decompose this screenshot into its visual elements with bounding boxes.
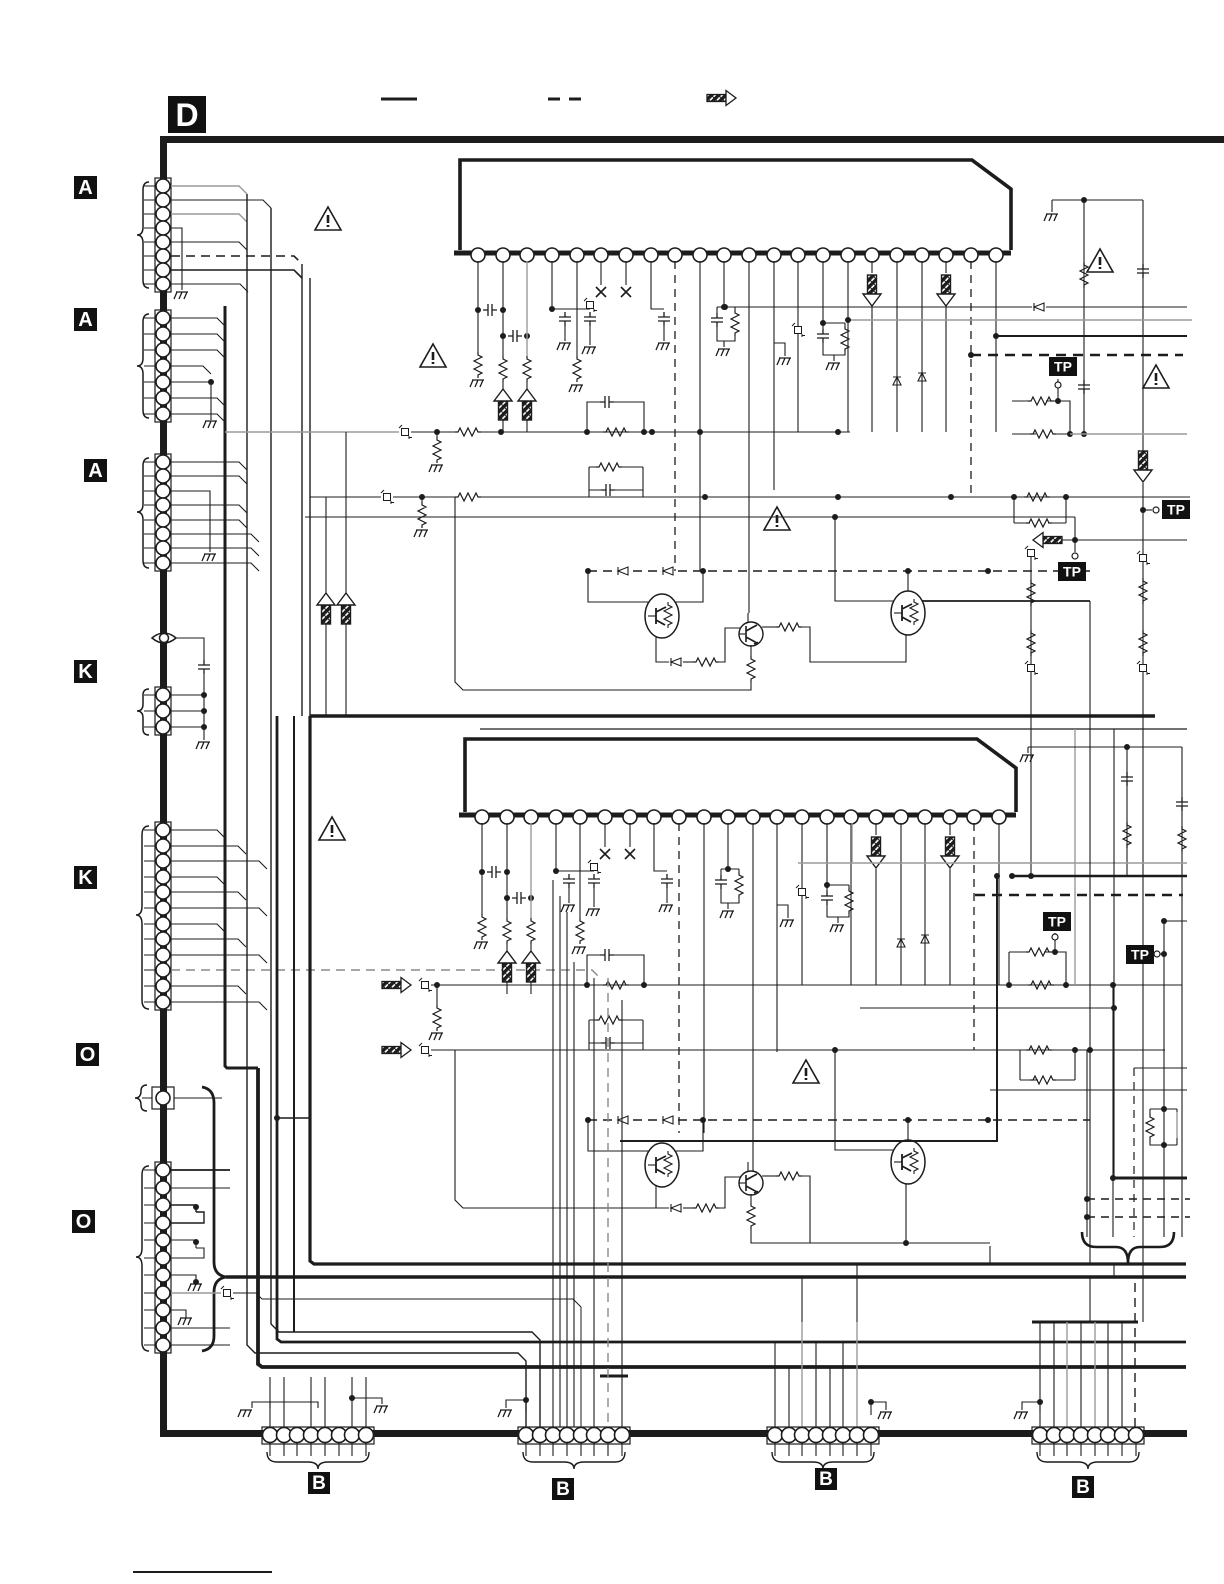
wire U1 pin12 drop <box>748 261 750 613</box>
ground U2-G8 <box>780 920 794 927</box>
wire A1-4 to ground <box>171 228 182 290</box>
transistor Q2 base wire <box>835 517 894 601</box>
IC U1 pins <box>471 248 1003 262</box>
resistor R10 <box>455 428 481 436</box>
wire U2 pin13 drop <box>776 823 778 1052</box>
gray vertical x1075 <box>1074 729 1076 985</box>
ground U1-G6 <box>716 349 730 356</box>
arrow U2 down2 <box>949 823 951 835</box>
resistor U1-R6 <box>841 326 849 352</box>
ground U2-G6 <box>720 911 734 918</box>
capacitor U1-C1 <box>483 304 497 316</box>
svg-text:A: A <box>88 460 102 482</box>
wire U2 pin15 loop2 <box>827 823 849 923</box>
ground A2 <box>203 421 217 428</box>
wires K1 to junction <box>171 695 204 727</box>
capacitor C-K <box>198 660 210 674</box>
border bottom <box>160 1430 1187 1437</box>
wire U1 pin21 drop (dashed) <box>970 261 972 497</box>
ground A3 <box>202 554 216 561</box>
wire Q3 emitter left <box>455 497 751 690</box>
svg-text:B: B <box>1076 1477 1090 1498</box>
brace B2 <box>523 1452 625 1469</box>
wire A2-1 <box>171 318 225 326</box>
wire U1 pin3 drop (gray) <box>526 261 528 356</box>
wire y497 lead <box>310 496 381 498</box>
label B4 <box>1072 1476 1094 1498</box>
ground U1-G5 <box>656 343 670 350</box>
arrow U2 up1 <box>498 951 516 982</box>
legend signal-flow arrow <box>707 91 736 106</box>
resistor U1-R4 <box>573 356 581 382</box>
wire y571 dashed bus <box>588 570 1090 572</box>
warning triangle (far right) <box>1143 365 1169 388</box>
wire O2-8 gray with bead <box>171 1292 221 1294</box>
CN-K1 stubs <box>144 695 156 727</box>
loop E vertical resistors <box>1150 1109 1177 1145</box>
resistor R13 <box>421 497 423 502</box>
ground U2-G1 <box>474 942 488 949</box>
transistor Q1 <box>645 594 679 638</box>
B1 feed wires <box>270 1377 366 1428</box>
ground U1-G8 <box>777 358 791 365</box>
wire y747 top of lower column <box>1028 746 1182 748</box>
wire O2-6 <box>171 1248 204 1258</box>
resistor R20 <box>436 985 438 1005</box>
connector CN-K1 pins <box>156 688 170 734</box>
test point TP5 <box>1126 945 1154 964</box>
resistor R25 right of Q6 <box>762 1175 776 1177</box>
wire U2 pin19 drop <box>924 823 926 985</box>
vertical x1143 <box>1142 200 1144 451</box>
label O (second) <box>72 1210 95 1233</box>
RC loop on y985 (C21/R26) <box>587 955 644 985</box>
resistor U2-R6 <box>845 888 853 914</box>
big group brace O <box>202 1087 226 1351</box>
connector B3 pins <box>768 1428 879 1443</box>
no-connect U1 pin7 <box>625 261 627 285</box>
wire U1 pin10 drop <box>699 261 701 571</box>
svg-text:O: O <box>76 1211 92 1233</box>
CN-O1 stub and wire <box>142 1097 222 1099</box>
brace B4 <box>1037 1452 1139 1469</box>
ground G10 <box>429 465 443 472</box>
IC U2 pin row line <box>459 813 1016 818</box>
right resistor chain x1143 <box>1137 551 1150 565</box>
connector CN-O1 body <box>152 1087 174 1109</box>
transistor Q5 <box>907 1120 909 1141</box>
vertical x1164 <box>1163 921 1165 1145</box>
ground U1-G4 <box>569 385 583 392</box>
no-connect U2 pin7 <box>629 823 631 847</box>
wire U2 pin5 drop <box>579 823 581 918</box>
vertical x1031 lower <box>1030 700 1032 876</box>
ground U1-G3 <box>582 347 596 354</box>
transistor Q4 <box>645 1143 679 1187</box>
resistor U1-R2 <box>499 356 507 382</box>
arrow right B+ feed 1 <box>382 978 411 993</box>
connector CN-A1 body <box>155 178 171 292</box>
wire A3-3 to ground <box>171 491 210 552</box>
wire U2 pin21 drop (dashed) <box>973 823 975 1050</box>
ground U2-G5 <box>659 905 673 912</box>
diode D30 <box>1034 303 1044 311</box>
wire y517 <box>305 516 1075 518</box>
ground top-right <box>1051 200 1053 212</box>
bus vertical v246 <box>247 194 526 1427</box>
RC loop low (R40/R41) <box>1020 1050 1075 1080</box>
connector B1 lower stubs <box>270 1443 366 1456</box>
wire U1 pin9 drop (dashed) <box>674 261 676 571</box>
vertical x1182 <box>1181 747 1183 1237</box>
wire U1 pin2 drop <box>502 261 504 356</box>
ground U2-G2 <box>561 905 575 912</box>
connector CN-A2 body <box>155 310 171 422</box>
lamp/eye symbol <box>152 633 176 643</box>
wire y497 cont <box>481 496 1190 498</box>
connector CN-O1 pin <box>156 1091 170 1105</box>
bead FB3 <box>419 978 432 992</box>
transistor Q5 base wire <box>835 1050 894 1150</box>
no-connect U1 pin6 <box>600 261 602 285</box>
B2 ground left <box>506 1400 526 1412</box>
capacitor U2-C4 (polar) <box>588 860 601 874</box>
frame: page key box D <box>168 96 206 133</box>
wire A3-2 <box>171 476 247 484</box>
label A (third) <box>84 459 107 482</box>
verticals bundle to B2 <box>553 880 622 1427</box>
IC U1 pin row line <box>454 251 1011 256</box>
bead FB4 <box>419 1043 432 1057</box>
capacitor U1-C6 <box>711 313 723 327</box>
wire U1 pin11 loop <box>723 261 725 307</box>
wire Q2 right y601 <box>922 600 1090 602</box>
transistor Q1 emitter chain <box>656 637 669 662</box>
wire y1008 <box>860 1007 1114 1009</box>
wire y876 thick <box>1012 875 1187 878</box>
arrow down x1143 <box>1134 451 1152 482</box>
footer rule <box>133 1571 272 1573</box>
resistor U2-R4 <box>576 918 584 944</box>
connector CN-A3 body <box>155 454 171 571</box>
wire O2-3 junction <box>171 1205 196 1212</box>
label B3 <box>815 1468 837 1490</box>
diode U2-D2 <box>921 935 929 943</box>
no-connect U2 pin6 <box>604 823 606 847</box>
wire A1-6 (dashed) <box>171 256 302 264</box>
IC U2 outline <box>465 739 1016 812</box>
transistor Q1 collector wire <box>674 571 703 602</box>
wire U2 pin12 drop <box>752 823 754 1175</box>
wire y1169 thick <box>1113 1177 1187 1180</box>
wire A3-5 <box>171 520 247 528</box>
wire U2 pin14 drop + bead <box>801 823 803 985</box>
wire y1120 dashed bus (lower) <box>588 1119 1090 1121</box>
wire y921 <box>1164 920 1187 922</box>
warning triangle (center) <box>764 507 790 530</box>
wire A2-3 <box>171 350 225 358</box>
capacitor U2-C1 <box>487 866 501 878</box>
left resistor chain x1031 <box>1030 553 1032 700</box>
wire O2-7 to ground <box>171 1275 196 1282</box>
connector CN-K2 pins <box>156 823 170 1009</box>
ground U1-G2 <box>557 343 571 350</box>
resistor U1-R3 <box>523 356 531 382</box>
capacitor U1-C2 <box>508 330 522 342</box>
wire y1054 <box>431 1049 1165 1051</box>
resistor R12 <box>455 493 481 501</box>
wire U2 pin16 drop <box>850 823 852 985</box>
RC loop on y432 (C11/R16) <box>587 402 644 432</box>
B1 ground right <box>352 1398 382 1404</box>
warning triangle (mid IC1) <box>420 344 446 367</box>
wire y985 <box>431 984 1182 986</box>
connector CN-O2 body <box>155 1162 171 1353</box>
wires K2 rows <box>171 830 267 1010</box>
resistor U2-R1 <box>478 914 486 940</box>
transistor Q3 emitter resistor <box>750 645 752 656</box>
resistor U2-R5 <box>735 872 743 898</box>
brace CN-O2 <box>136 1166 149 1351</box>
wire left feed lower <box>455 1050 656 1208</box>
RC loop TP1 (R31/R32) <box>1012 401 1070 434</box>
wire U2 pin8 jog <box>654 823 667 871</box>
wire U2 pin1 drop <box>481 823 483 914</box>
wire y863 gray <box>798 862 1187 864</box>
svg-text:K: K <box>78 867 93 889</box>
wire U1 pin5 drop <box>576 261 578 356</box>
diode D21 <box>663 1116 673 1124</box>
wire U1 pin18 drop <box>896 261 898 432</box>
warning triangle (left lower) <box>319 817 345 840</box>
brace CN-A3 <box>137 458 149 568</box>
svg-text:A: A <box>78 309 92 331</box>
connector B4 pins <box>1033 1428 1144 1443</box>
wire U2 pin10 drop <box>703 823 705 1133</box>
capacitor U2-C3 <box>563 874 575 888</box>
capacitor U2-C6 <box>715 875 727 889</box>
CN-A1 pin stubs <box>144 186 156 284</box>
CN-A3 pin stubs <box>144 462 156 563</box>
bus vertical v226 <box>225 306 258 1068</box>
capacitor C30 <box>1078 380 1090 394</box>
wire A1-2 <box>171 200 271 208</box>
wire U2 pin11 loop <box>727 823 729 869</box>
warning triangle (center lower) <box>793 1060 819 1083</box>
diode U1-D2 <box>918 373 926 381</box>
brace CN-A1 <box>137 182 149 288</box>
ground U1-G7 <box>826 363 840 370</box>
svg-text:B: B <box>312 1473 326 1494</box>
wire A1-8 <box>171 284 248 292</box>
diode D11 <box>663 567 673 575</box>
arrow left feed <box>1033 533 1062 548</box>
ground U2-G4 <box>572 947 586 954</box>
gray vertical to B2 <box>580 1307 582 1427</box>
diode U1-D1 <box>893 377 901 385</box>
ground U2-G7 <box>830 925 844 932</box>
dashed vertical B4 <box>1134 1283 1136 1444</box>
bus vertical v294 <box>293 716 295 1332</box>
capacitor U1-C3 <box>559 312 571 326</box>
svg-text:K: K <box>78 661 93 683</box>
bus vertical v277 thick <box>277 716 1186 1342</box>
arrow U1 up2 <box>518 389 536 420</box>
connector CN-O2 pins <box>156 1163 170 1352</box>
brace B3 <box>772 1452 874 1469</box>
capacitor U1-C4 (polar) <box>584 298 597 312</box>
ground B4 <box>1022 1402 1040 1412</box>
transistor Q5 emitter <box>905 1183 907 1243</box>
CN-K2 stubs <box>144 830 156 1002</box>
wire U1 pin22 drop <box>995 261 997 432</box>
connector B4 lower stubs <box>1040 1443 1136 1456</box>
arrow U1 down1 <box>871 261 873 273</box>
connector B2 pins <box>519 1428 630 1443</box>
connector B1 body <box>262 1427 374 1444</box>
vertical x1084 <box>1083 200 1085 434</box>
bus thick horizontal y1277 <box>226 1275 1186 1279</box>
wire U2 pin18 drop <box>900 823 902 985</box>
transistor Q1 base wire <box>588 571 650 602</box>
wire U1 pin13 drop <box>773 261 775 490</box>
connector CN-A1 pins <box>156 179 170 291</box>
verticals to brace <box>1086 1050 1088 1237</box>
brace CN-K2 <box>136 826 149 1009</box>
brace CN-O1 <box>135 1085 147 1111</box>
wire y497 <box>393 496 455 498</box>
vertical x1127 <box>1126 747 1128 876</box>
transistor Q4 collector wire <box>674 1120 703 1151</box>
wires of up arrows <box>326 432 346 716</box>
wire lamp to cap <box>176 638 204 660</box>
wire U1 pin4 jog <box>552 261 590 309</box>
wire U2 pin3 drop (gray) <box>530 823 532 918</box>
wire O2-11 <box>171 1344 230 1346</box>
brace B1 <box>267 1452 369 1469</box>
wire U1 pin8 jog <box>651 261 664 309</box>
connector CN-K2 body <box>155 822 171 1010</box>
label O (first) <box>76 1043 99 1066</box>
wire A2-6 <box>171 398 225 406</box>
wire y336 <box>996 335 1187 337</box>
vertical x1143 lower <box>1142 700 1144 1322</box>
wire O2-9 to ground <box>171 1310 186 1318</box>
arrow U2 down1 <box>875 823 877 835</box>
wire top-right y200 <box>1052 199 1143 201</box>
wire K2-10 dashed <box>171 970 600 978</box>
wire y895 dashed <box>975 894 1183 896</box>
capacitor C31 <box>1137 264 1149 278</box>
connector B2 lower stubs <box>526 1443 622 1456</box>
arrow up pair left <box>317 593 335 624</box>
B3 feed wires <box>775 1342 843 1428</box>
wire A2-5 junction <box>171 382 211 420</box>
diode D10 <box>618 567 628 575</box>
ground B3 <box>871 1402 886 1415</box>
wire A3-4 <box>171 505 247 513</box>
wire cap down <box>203 674 205 740</box>
bus vertical v258 thick <box>258 1068 1186 1367</box>
brace CN-K1 <box>137 689 149 735</box>
svg-text:D: D <box>175 97 198 133</box>
dashed vertical to B2 <box>607 978 609 1427</box>
wire A1-1 (gray) <box>171 186 247 194</box>
bead FB2 <box>381 490 394 504</box>
wire y1144 feed <box>620 876 997 1141</box>
resistor R30 <box>1080 262 1088 288</box>
wire A1-7 <box>171 270 302 278</box>
ground O2-7 <box>188 1284 202 1291</box>
diode U2-D1 <box>897 939 905 947</box>
svg-text:B: B <box>819 1469 833 1490</box>
wire U1 pin15 loop2 <box>823 261 845 361</box>
ground U2-G3 <box>586 909 600 916</box>
junction v277-v310 link <box>277 1117 310 1119</box>
transistor Q6 <box>739 1171 763 1195</box>
connector B3 body <box>767 1427 879 1444</box>
bead FB1 <box>399 425 412 439</box>
wire A2-7 <box>171 414 225 422</box>
wire O2-4 <box>171 1212 204 1223</box>
ground lower column <box>1020 755 1034 762</box>
wire O2-5 junction <box>171 1240 196 1248</box>
ground G11 <box>414 530 428 537</box>
ground K1 <box>196 742 210 749</box>
wire U1 pin1 drop <box>477 261 479 352</box>
RC loop mid (R14/C10) <box>589 467 643 497</box>
wire O2-2 <box>171 1187 230 1189</box>
wire U1 pin14 drop + bead <box>797 261 799 432</box>
connector CN-K1 body <box>155 687 171 735</box>
capacitor U1-C7 <box>817 329 829 343</box>
resistor R11 <box>436 432 438 437</box>
wire y432 cont <box>481 431 850 433</box>
bus thin horizontal y729 <box>480 728 1187 730</box>
wire y320 gray <box>848 319 1192 321</box>
label K (second) <box>74 866 97 889</box>
border left <box>160 136 167 1437</box>
capacitor U2-C2 <box>512 892 526 904</box>
bus wire from A1 row6 down <box>301 264 303 716</box>
connector CN-A2 pins <box>156 311 170 421</box>
stub above B2 <box>600 1375 628 1378</box>
capacitor U1-C5 <box>658 312 670 326</box>
test point TP1 <box>1049 357 1077 376</box>
ground G20 <box>429 1033 443 1040</box>
wire U2 pin2 drop <box>506 823 508 918</box>
bus thick horizontal y716 <box>310 714 1155 718</box>
B1 ground left <box>252 1402 284 1408</box>
connector CN-A3 pins <box>156 455 170 570</box>
warning triangle (left upper) <box>315 207 341 230</box>
test point TP4 <box>1043 912 1071 931</box>
arrow U2 up2 <box>522 951 540 982</box>
wire U2 pin9 drop (dashed) <box>678 823 680 1133</box>
wire O2-10 <box>171 1327 230 1329</box>
resistor U1-R1 <box>474 352 482 378</box>
border top <box>160 136 1224 143</box>
connector B2 body <box>518 1427 630 1444</box>
resistor U1-R5 <box>731 310 739 336</box>
bus wire from A1 row7 down <box>309 278 311 716</box>
arrow right B+ feed 2 <box>382 1043 411 1058</box>
RC loop TP4 <box>1009 952 1066 985</box>
transistor Q6 emitter resistor <box>750 1194 752 1203</box>
wire y1090 <box>990 1089 1187 1091</box>
wire U1 pin16 drop <box>847 261 849 432</box>
wire A1-5 <box>171 242 247 250</box>
